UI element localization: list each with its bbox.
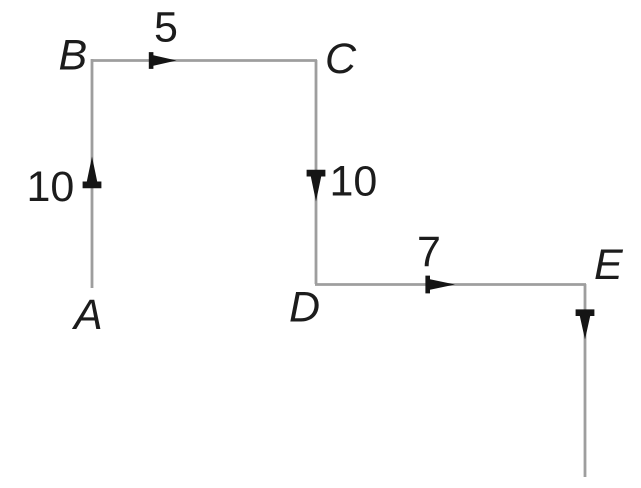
svg-text:E: E [594,241,624,289]
arrow right on D-E [425,276,455,294]
svg-text:D: D [289,284,320,332]
wire C-D [315,60,318,284]
svg-text:A: A [71,291,103,339]
svg-text:10: 10 [330,158,378,206]
wire A-B [91,59,94,288]
arrow right on B-C [149,52,177,69]
arrow down on C-D [307,170,326,202]
wire E-down [584,284,587,477]
svg-text:7: 7 [417,228,441,276]
svg-text:5: 5 [154,4,178,52]
svg-text:C: C [325,35,357,83]
svg-text:B: B [59,32,88,80]
svg-text:10: 10 [27,163,75,211]
arrow down on E tail [576,309,595,339]
wire D-E [315,283,586,286]
arrow up on A-B [83,157,102,189]
wire B-C [91,59,317,62]
